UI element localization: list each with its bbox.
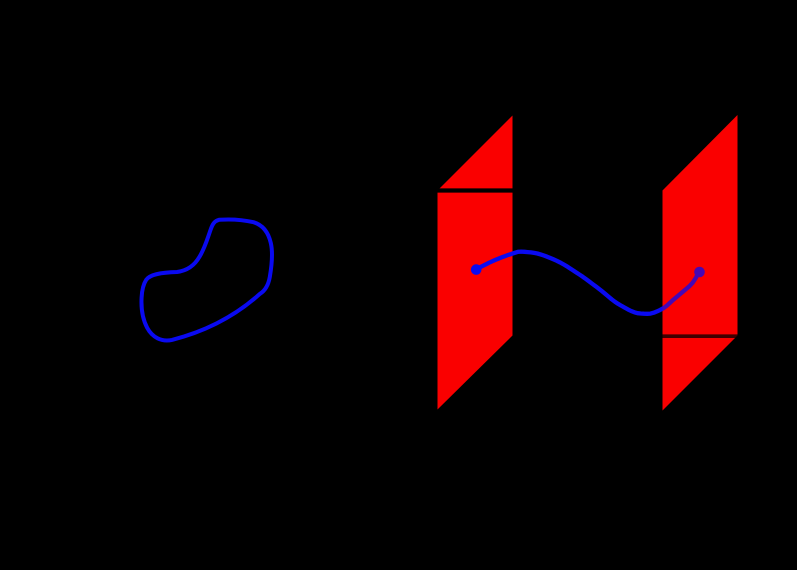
end point dot xyxy=(694,267,705,278)
black line across left plane xyxy=(437,188,514,192)
left red plane xyxy=(438,116,513,410)
translucent red overlay on right plane xyxy=(663,115,738,411)
closed blue curve (left region boundary) xyxy=(141,219,272,340)
start point dot xyxy=(471,264,482,275)
black line across right plane xyxy=(662,334,738,338)
blue path between the planes xyxy=(476,252,699,314)
right red plane xyxy=(663,115,738,411)
